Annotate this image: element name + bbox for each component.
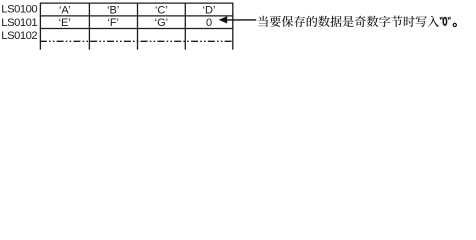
- annotation ideographic full stop: [453, 23, 456, 26]
- svg-text:0: 0: [206, 17, 212, 29]
- annotation digit 0: [443, 18, 446, 26]
- chinese annotation text: 当要保存的数据是奇数字节时写入: [258, 16, 439, 27]
- table row separator 1: [40, 15, 234, 17]
- svg-text:‘B’: ‘B’: [107, 4, 119, 16]
- annotation closing double quote: [448, 17, 450, 20]
- table column line left edge: [39, 3, 41, 50]
- annotation arrow head: [219, 16, 228, 23]
- annotation opening double quote: [440, 17, 442, 20]
- svg-text:‘E’: ‘E’: [59, 17, 71, 29]
- svg-text:‘A’: ‘A’: [59, 4, 70, 16]
- svg-text:‘D’: ‘D’: [203, 4, 216, 16]
- annotation arrow line: [227, 19, 257, 21]
- table column line 2: [88, 3, 90, 50]
- svg-text:‘G’: ‘G’: [155, 17, 168, 29]
- svg-text:LS0101: LS0101: [1, 17, 37, 29]
- svg-text:‘C’: ‘C’: [155, 4, 168, 16]
- table column line 4: [184, 3, 186, 50]
- svg-text:LS0100: LS0100: [1, 4, 37, 16]
- table top border: [40, 2, 234, 4]
- table row separator 2: [40, 28, 234, 30]
- table column line 3: [137, 3, 139, 50]
- svg-text:‘F’: ‘F’: [107, 17, 119, 29]
- table column line right edge: [232, 3, 234, 50]
- table bottom dash-dot continuation line: [40, 40, 234, 42]
- svg-text:LS0102: LS0102: [1, 30, 37, 42]
